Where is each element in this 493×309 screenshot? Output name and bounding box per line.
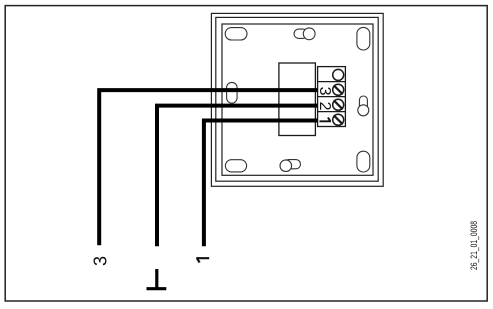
svg-text:2: 2 <box>316 102 333 111</box>
terminal cell divider 1 <box>318 81 346 83</box>
mounting slot bottom-middle (keyhole) <box>280 160 301 172</box>
wall mounting plate outer outline <box>211 13 383 186</box>
mounting slot top-left <box>225 28 247 40</box>
terminal 3 screw <box>333 84 344 95</box>
terminal 2 screw <box>333 99 344 110</box>
wire 2 (middle) <box>155 104 318 247</box>
svg-text:3: 3 <box>316 87 333 96</box>
mounting slot top-middle (keyhole) <box>294 28 315 40</box>
mounting slot right-middle (keyhole) <box>358 96 369 116</box>
wire 1 <box>202 119 318 247</box>
svg-text:3: 3 <box>91 256 111 266</box>
wire label 1 <box>196 257 209 263</box>
wire 3 <box>97 88 317 245</box>
terminal cell divider 2 <box>318 96 346 98</box>
terminal label 1 <box>319 117 331 122</box>
mounting slot bottom-right <box>357 151 370 172</box>
wall mounting plate middle outline <box>216 17 378 181</box>
svg-text:26_21_01_0008: 26_21_01_0008 <box>468 221 479 270</box>
mounting slot top-right <box>357 27 370 50</box>
unused terminal screw hole (top cell) <box>333 69 344 80</box>
wall mounting plate inner outline <box>222 24 373 175</box>
terminal strip outline <box>318 67 346 127</box>
terminal 1 screw <box>333 114 344 125</box>
earth symbol <box>147 269 167 289</box>
terminal cell divider 3 <box>318 111 346 113</box>
mounting slot bottom-left <box>225 160 246 172</box>
mounting slot left-middle <box>227 82 238 103</box>
terminal block body <box>279 63 316 136</box>
